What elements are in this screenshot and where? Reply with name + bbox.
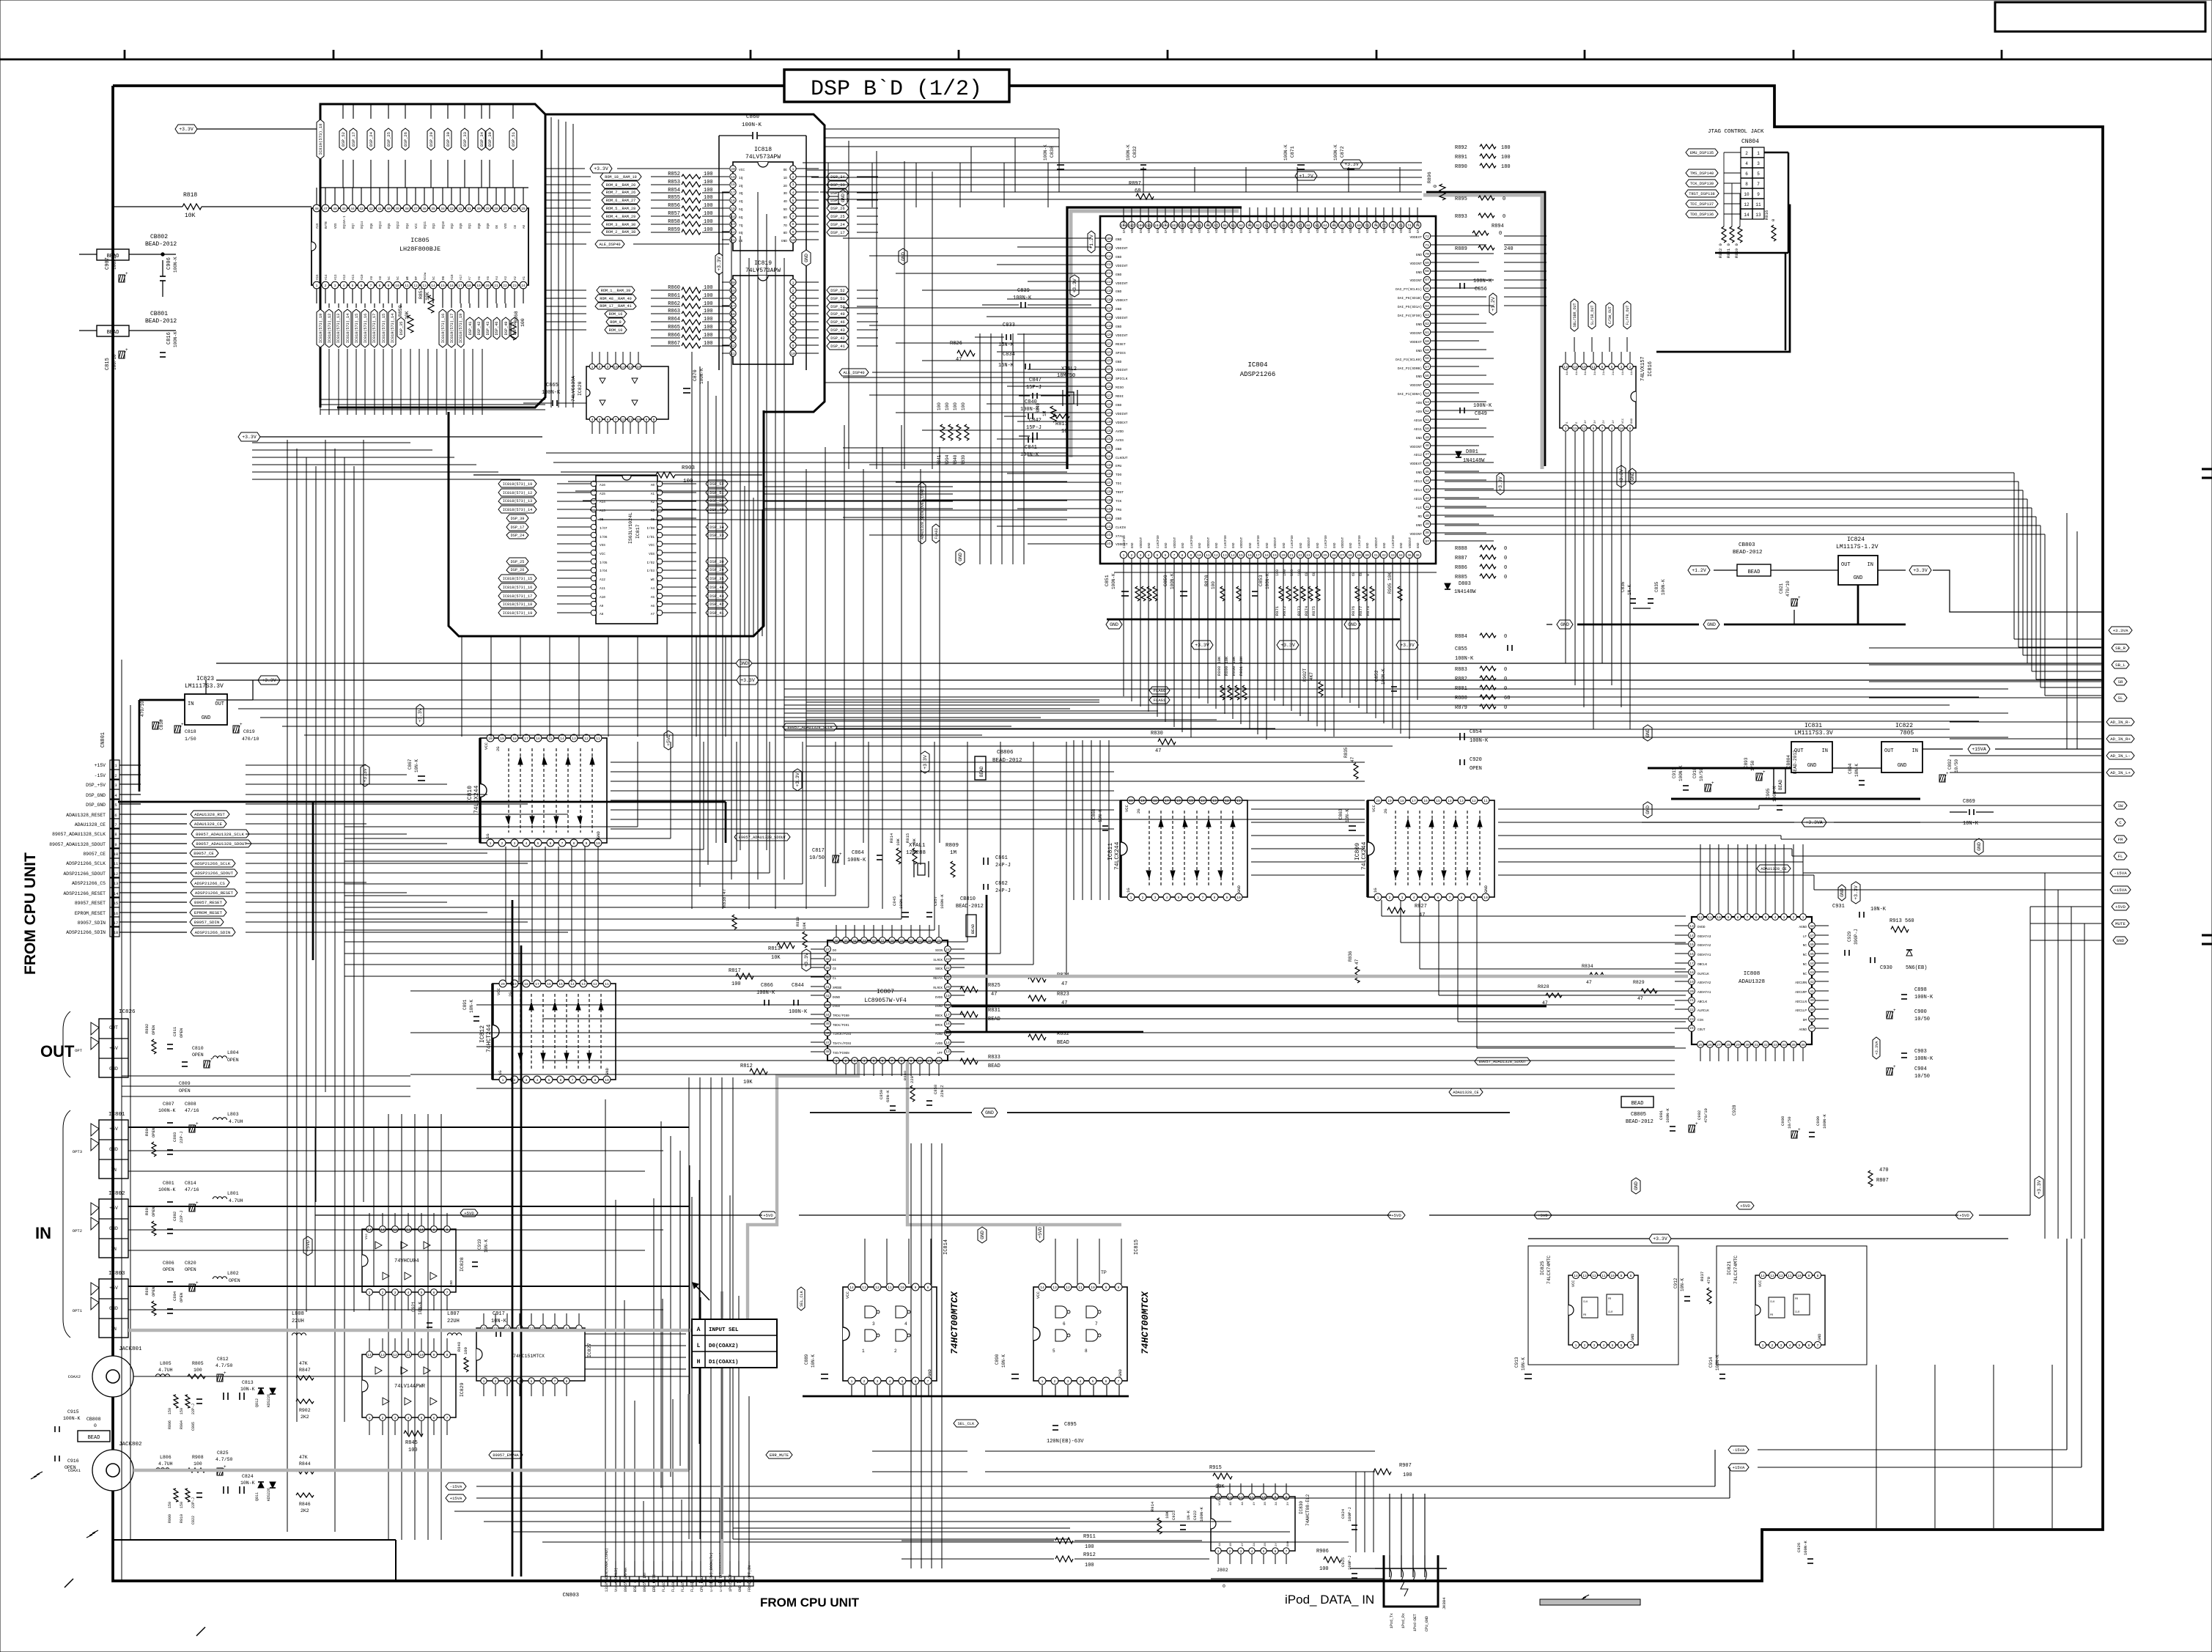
svg-text:6: 6 xyxy=(792,320,795,325)
svg-text:R814: R814 xyxy=(889,833,894,843)
svg-text:7: 7 xyxy=(1118,1379,1120,1384)
svg-text:R913 560: R913 560 xyxy=(1890,918,1914,924)
svg-text:3: 3 xyxy=(1401,896,1404,900)
tag ERR_MUTE xyxy=(766,1451,792,1459)
svg-text:36: 36 xyxy=(834,939,838,943)
svg-text:GND: GND xyxy=(1275,227,1278,233)
svg-text:89057_ADAU1328_SCLK: 89057_ADAU1328_SCLK xyxy=(196,832,245,837)
svg-text:11: 11 xyxy=(927,1059,932,1063)
svg-text:C821: C821 xyxy=(1779,583,1784,594)
svg-text:12: 12 xyxy=(114,871,119,877)
svg-text:7: 7 xyxy=(446,1416,449,1420)
svg-text:34: 34 xyxy=(1782,1043,1786,1047)
svg-text:IC808: IC808 xyxy=(1744,971,1761,977)
svg-text:+3.3V: +3.3V xyxy=(242,435,257,440)
svg-text:R891: R891 xyxy=(1455,155,1467,161)
resistor R868 100 xyxy=(510,322,516,340)
svg-text:136: 136 xyxy=(1106,472,1113,476)
svg-text:89057_ADAU1328_SDOUT: 89057_ADAU1328_SDOUT xyxy=(49,842,106,847)
svg-text:DSP_39: DSP_39 xyxy=(511,517,525,521)
svg-text:R811: R811 xyxy=(1055,421,1068,427)
svg-text:DSP_24: DSP_24 xyxy=(369,131,374,147)
svg-text:17: 17 xyxy=(1689,962,1694,966)
svg-text:LM1117S3.3V: LM1117S3.3V xyxy=(1794,730,1833,737)
svg-text:A5: A5 xyxy=(651,596,655,600)
svg-text:16: 16 xyxy=(1176,799,1181,803)
svg-text:61: 61 xyxy=(1425,331,1429,335)
svg-text:10N-K: 10N-K xyxy=(1680,1278,1685,1291)
svg-text:14: 14 xyxy=(1216,1495,1220,1500)
svg-text:ADSP21266_RESET: ADSP21266_RESET xyxy=(63,891,106,896)
svg-text:FROM CPU UNIT: FROM CPU UNIT xyxy=(760,1596,860,1609)
svg-text:56: 56 xyxy=(1425,374,1429,378)
svg-text:135: 135 xyxy=(1106,463,1113,468)
svg-text:47: 47 xyxy=(1155,748,1161,754)
+3.3V rail over flip-flops xyxy=(1528,1238,2008,1239)
svg-text:TDATA/PI03: TDATA/PI03 xyxy=(833,1042,852,1046)
svg-text:Vccw(ROM13): Vccw(ROM13) xyxy=(614,1568,619,1592)
svg-text:CE: CE xyxy=(833,968,837,971)
svg-text:A1: A1 xyxy=(523,276,526,280)
svg-text:100: 100 xyxy=(1319,1566,1329,1572)
svg-text:CB803: CB803 xyxy=(1739,542,1755,548)
svg-text:10: 10 xyxy=(1797,1274,1802,1278)
wire IC811 to IC809 links xyxy=(1251,808,1365,810)
svg-text:8: 8 xyxy=(1629,427,1632,431)
svg-text:DM: DM xyxy=(1803,1019,1807,1022)
svg-text:11: 11 xyxy=(1078,1286,1083,1290)
svg-text:20: 20 xyxy=(488,737,493,741)
svg-text:30: 30 xyxy=(1365,553,1369,558)
svg-text:OPEN: OPEN xyxy=(151,1287,156,1297)
svg-text:+1.2V: +1.2V xyxy=(1299,174,1313,179)
svg-text:CE: CE xyxy=(515,224,517,229)
svg-text:OSDATA2: OSDATA2 xyxy=(1697,944,1711,948)
svg-text:51: 51 xyxy=(1425,418,1429,422)
svg-text:14: 14 xyxy=(1201,799,1205,803)
svg-text:3: 3 xyxy=(526,1078,528,1083)
svg-text:BYTE: BYTE xyxy=(325,221,328,229)
svg-text:C809: C809 xyxy=(179,1081,191,1086)
right edge register marks xyxy=(2202,468,2212,470)
svg-text:47K: 47K xyxy=(299,1455,308,1460)
svg-text:6D: 6D xyxy=(784,215,788,220)
resistor R808 220 xyxy=(910,1085,915,1102)
svg-text:CLKCFG0: CLKCFG0 xyxy=(1225,535,1228,548)
svg-text:+: + xyxy=(1893,1064,1896,1069)
svg-text:GND: GND xyxy=(740,661,748,666)
svg-text:VDDINT: VDDINT xyxy=(1275,536,1278,548)
svg-text:C802: C802 xyxy=(172,1212,177,1221)
svg-text:14: 14 xyxy=(570,982,575,987)
svg-text:DAI_P20: DAI_P20 xyxy=(1124,220,1127,233)
svg-text:100P-J: 100P-J xyxy=(1347,1507,1352,1522)
svg-text:DSP_33: DSP_33 xyxy=(462,132,468,147)
svg-text:4: 4 xyxy=(1251,1549,1253,1554)
svg-text:112: 112 xyxy=(1106,262,1113,267)
svg-text:GND: GND xyxy=(1241,227,1244,233)
svg-text:109: 109 xyxy=(1106,237,1113,241)
flip-flop IC825 74LCX74MTC xyxy=(1568,1275,1638,1345)
svg-text:131: 131 xyxy=(1106,429,1113,433)
vertical net tags below IC805 right group xyxy=(439,309,446,347)
svg-text:A7: A7 xyxy=(651,613,655,616)
svg-text:4B: 4B xyxy=(1230,1502,1233,1505)
svg-text:R810: R810 xyxy=(795,917,800,926)
svg-text:22P-J: 22P-J xyxy=(191,1497,196,1508)
svg-text:13: 13 xyxy=(1582,1274,1587,1278)
svg-text:AD14: AD14 xyxy=(1414,488,1422,493)
svg-text:R825: R825 xyxy=(988,983,1000,989)
svg-text:GND: GND xyxy=(1977,842,1982,851)
svg-text:9: 9 xyxy=(388,284,390,288)
svg-text:2: 2 xyxy=(1745,151,1748,156)
svg-text:GND: GND xyxy=(1140,227,1143,233)
svg-text:ADSP21266_RESET: ADSP21266_RESET xyxy=(195,890,234,896)
svg-text:TCK_DSP139: TCK_DSP139 xyxy=(1690,182,1714,186)
svg-text:470/10: 470/10 xyxy=(1703,1108,1708,1123)
svg-text:31: 31 xyxy=(880,939,885,943)
tag 89057_EMPHA xyxy=(489,1451,523,1459)
power tag +3.3V at IC818 xyxy=(590,164,612,173)
wire collectors below IC804 xyxy=(806,701,1099,703)
svg-text:18M750: 18M750 xyxy=(1057,373,1075,379)
top ruler line xyxy=(0,59,2212,61)
svg-text:DSP_42: DSP_42 xyxy=(709,602,723,607)
svg-text:3A: 3A xyxy=(1275,1502,1278,1505)
svg-text:44: 44 xyxy=(825,1013,830,1017)
svg-text:7: 7 xyxy=(1286,1549,1288,1554)
svg-text:C808: C808 xyxy=(185,1102,196,1107)
svg-text:CN804: CN804 xyxy=(1741,139,1759,145)
svg-text:16: 16 xyxy=(449,284,454,288)
svg-text:R815: R815 xyxy=(905,833,910,843)
wire NAND ground bus xyxy=(803,1395,1129,1398)
svg-text:74LCX244: 74LCX244 xyxy=(473,785,480,814)
svg-text:100: 100 xyxy=(1211,581,1216,589)
svg-text:BEAD: BEAD xyxy=(988,1017,1000,1022)
DAC IC808 body xyxy=(1692,917,1812,1044)
svg-text:TRST_DSP138: TRST_DSP138 xyxy=(1689,192,1715,196)
svg-text:27: 27 xyxy=(918,939,922,943)
svg-text:+: + xyxy=(1798,595,1801,600)
wire bottom long links xyxy=(733,1527,1070,1529)
svg-text:AD12: AD12 xyxy=(1414,453,1422,457)
svg-text:VDDINT: VDDINT xyxy=(1116,333,1128,338)
svg-text:ADAU1328_SDIN(OVER_LOAD): ADAU1328_SDIN(OVER_LOAD) xyxy=(921,487,925,539)
svg-text:2: 2 xyxy=(1793,915,1795,920)
svg-text:3in1: 3in1 xyxy=(1584,368,1588,375)
svg-text:R845: R845 xyxy=(405,1440,418,1446)
svg-text:VDDINT: VDDINT xyxy=(1409,383,1422,388)
svg-text:20: 20 xyxy=(1129,799,1133,803)
svg-text:R900 10K: R900 10K xyxy=(1231,656,1236,676)
wire R911 R912 links xyxy=(872,1450,967,1452)
svg-text:A5: A5 xyxy=(487,276,490,280)
svg-text:R835: R835 xyxy=(1343,747,1349,758)
svg-text:70: 70 xyxy=(1425,252,1429,257)
wire DAC top risers xyxy=(1700,844,1701,913)
svg-text:10: 10 xyxy=(1197,553,1201,558)
svg-text:16: 16 xyxy=(1247,553,1252,558)
svg-text:ROM_6__RAM_27: ROM_6__RAM_27 xyxy=(606,199,635,203)
svg-text:12: 12 xyxy=(1472,799,1476,803)
svg-text:IC820: IC820 xyxy=(578,381,583,396)
svg-text:6: 6 xyxy=(882,1059,884,1063)
svg-text:MOSI: MOSI xyxy=(1116,394,1124,399)
svg-text:13: 13 xyxy=(581,982,586,987)
svg-text:DSP_35: DSP_35 xyxy=(399,322,404,336)
svg-text:10N-K: 10N-K xyxy=(811,1354,816,1368)
svg-text:GND: GND xyxy=(1267,542,1269,548)
svg-text:1: 1 xyxy=(1575,1343,1577,1348)
svg-text:8: 8 xyxy=(446,1353,449,1357)
svg-text:C866: C866 xyxy=(761,983,773,989)
svg-text:11: 11 xyxy=(605,982,609,987)
svg-text:DSP_34: DSP_34 xyxy=(479,131,484,147)
svg-text:ADC1LN: ADC1LN xyxy=(1795,1000,1807,1004)
svg-text:100: 100 xyxy=(1403,1472,1412,1478)
svg-text:45: 45 xyxy=(825,1022,830,1026)
svg-text:+: + xyxy=(125,347,128,353)
svg-text:GND: GND xyxy=(1116,325,1122,329)
svg-text:GND: GND xyxy=(2117,938,2125,943)
svg-text:DSP_+5V: DSP_+5V xyxy=(86,783,106,788)
svg-text:94: 94 xyxy=(1239,224,1243,228)
svg-text:C838: C838 xyxy=(1050,146,1055,158)
svg-text:GND: GND xyxy=(1149,542,1151,548)
svg-text:GND: GND xyxy=(1634,1181,1639,1190)
svg-text:IC824: IC824 xyxy=(1847,536,1865,543)
svg-text:C871: C871 xyxy=(1290,146,1295,158)
svg-text:1/50: 1/50 xyxy=(185,737,196,742)
svg-text:C822: C822 xyxy=(191,1516,196,1524)
wire thick DSP_GND from CN801 xyxy=(118,801,726,803)
svg-text:DAI_P12: DAI_P12 xyxy=(1334,220,1337,233)
svg-text:VSS: VSS xyxy=(649,553,655,556)
svg-text:DI: DI xyxy=(833,959,837,962)
GND tag under IC804 left xyxy=(1106,620,1122,629)
svg-text:+3.3V: +3.3V xyxy=(804,953,809,967)
svg-text:+: + xyxy=(125,271,128,276)
svg-text:124: 124 xyxy=(1106,367,1113,372)
svg-text:10: 10 xyxy=(791,352,795,356)
svg-text:10N-K: 10N-K xyxy=(491,1319,507,1324)
wire +5V feeds down to optical xyxy=(314,1127,316,1286)
svg-text:10K: 10K xyxy=(185,213,196,219)
resistor R851 10K xyxy=(428,295,434,313)
capacitor C913 10N-K xyxy=(1525,1373,1532,1375)
svg-text:1M: 1M xyxy=(950,850,957,856)
svg-text:126: 126 xyxy=(1106,385,1113,389)
svg-text:1N4148W: 1N4148W xyxy=(1454,589,1476,595)
svg-text:A4: A4 xyxy=(651,587,655,591)
svg-text:-15VA: -15VA xyxy=(450,1484,462,1489)
svg-text:9: 9 xyxy=(1275,1495,1277,1500)
svg-text:AD_IN_R+: AD_IN_R+ xyxy=(2110,737,2131,742)
svg-text:DSP_46: DSP_46 xyxy=(709,586,723,590)
svg-text:DSP_26: DSP_26 xyxy=(511,568,525,572)
svg-text:A16: A16 xyxy=(600,484,605,487)
svg-text:9: 9 xyxy=(910,1059,913,1063)
wire right tag feeds xyxy=(2030,906,2101,907)
svg-text:R915: R915 xyxy=(1209,1465,1222,1471)
svg-text:D1(COAX1): D1(COAX1) xyxy=(709,1360,739,1365)
svg-text:IC812: IC812 xyxy=(479,1025,486,1043)
svg-text:4.7UH: 4.7UH xyxy=(229,1119,243,1124)
svg-text:1: 1 xyxy=(851,1379,853,1384)
svg-text:28: 28 xyxy=(1726,1043,1730,1047)
svg-text:+5VD: +5VD xyxy=(2115,904,2126,910)
svg-text:5: 5 xyxy=(1052,1349,1055,1354)
svg-text:iPod-DET: iPod-DET xyxy=(729,1574,733,1592)
svg-text:24: 24 xyxy=(1315,553,1319,558)
svg-text:R826: R826 xyxy=(950,341,962,347)
svg-text:1G: 1G xyxy=(1126,888,1131,893)
svg-text:24: 24 xyxy=(945,948,950,952)
svg-text:OPEN: OPEN xyxy=(1470,766,1482,772)
svg-text:31: 31 xyxy=(1754,1043,1758,1047)
svg-text:2: 2 xyxy=(894,1349,897,1354)
svg-text:4Y: 4Y xyxy=(1253,1502,1256,1505)
svg-text:390P-J: 390P-J xyxy=(1854,929,1859,945)
svg-text:DSP_34: DSP_34 xyxy=(709,526,723,530)
svg-text:127: 127 xyxy=(1106,394,1113,398)
wire horizontals above buffers xyxy=(216,699,1099,701)
svg-text:IC818(573)_17: IC818(573)_17 xyxy=(372,314,377,343)
svg-text:BEAD: BEAD xyxy=(970,923,976,934)
svg-text:I/O3: I/O3 xyxy=(646,569,655,573)
ROM/RAM net tags left of IC819 xyxy=(597,287,635,294)
svg-text:IC818(573)_12: IC818(573)_12 xyxy=(328,314,332,343)
svg-text:IN: IN xyxy=(1822,748,1828,754)
svg-text:C916: C916 xyxy=(67,1459,79,1464)
wire JK804 risers xyxy=(1389,1494,1390,1555)
svg-text:VDDINT: VDDINT xyxy=(1182,221,1185,233)
svg-text:I/O6: I/O6 xyxy=(600,536,608,539)
svg-text:22P-J: 22P-J xyxy=(179,1131,184,1143)
svg-text:119: 119 xyxy=(1106,324,1113,328)
svg-text:4: 4 xyxy=(1413,896,1415,900)
svg-text:DVDD: DVDD xyxy=(1697,926,1706,929)
svg-text:74AHCT08-EL2: 74AHCT08-EL2 xyxy=(1305,1494,1310,1526)
svg-text:GND: GND xyxy=(1116,290,1122,294)
svg-text:C861: C861 xyxy=(995,855,1008,861)
svg-text:+: + xyxy=(1711,781,1714,786)
svg-text:117: 117 xyxy=(1106,306,1113,311)
svg-text:10N-K: 10N-K xyxy=(469,1000,474,1013)
svg-text:6Q: 6Q xyxy=(739,215,743,220)
resistor column R841 R994 R840 R839 xyxy=(940,424,945,440)
svg-text:74LV573APW: 74LV573APW xyxy=(745,154,781,161)
svg-text:470/10: 470/10 xyxy=(140,701,145,717)
svg-text:100: 100 xyxy=(704,180,713,185)
svg-text:143: 143 xyxy=(1106,533,1113,537)
svg-text:8: 8 xyxy=(1461,896,1463,900)
svg-text:IN: IN xyxy=(111,1247,117,1252)
svg-text:1in0: 1in0 xyxy=(1630,368,1634,375)
svg-text:DSP_51: DSP_51 xyxy=(511,131,516,147)
svg-text:C920: C920 xyxy=(1470,757,1482,763)
svg-text:+3.3V: +3.3V xyxy=(795,772,800,787)
svg-text:0: 0 xyxy=(1771,219,1776,221)
resistor R816 0 xyxy=(1772,225,1776,241)
svg-text:4.7/50: 4.7/50 xyxy=(215,1457,233,1462)
svg-text:180: 180 xyxy=(1501,164,1511,170)
svg-text:39: 39 xyxy=(1810,1008,1814,1012)
svg-text:14: 14 xyxy=(367,1353,372,1357)
svg-text:7: 7 xyxy=(1449,896,1451,900)
svg-text:100N-K: 100N-K xyxy=(1126,144,1131,161)
svg-text:DSP_30: DSP_30 xyxy=(446,132,451,147)
tags -15VA +15VA left xyxy=(446,1483,466,1490)
svg-text:16: 16 xyxy=(945,1022,950,1026)
vertical net tags above IC805 xyxy=(317,119,324,159)
svg-text:54: 54 xyxy=(1425,391,1429,396)
svg-text:43: 43 xyxy=(1425,487,1429,492)
svg-text:7: 7 xyxy=(1601,427,1604,431)
svg-text:30: 30 xyxy=(476,207,481,211)
svg-text:OUT: OUT xyxy=(215,701,224,707)
svg-text:VDDINT: VDDINT xyxy=(1342,536,1345,548)
svg-text:6: 6 xyxy=(114,813,117,818)
svg-text:10: 10 xyxy=(114,852,119,857)
wire top bus outer blob to DSP xyxy=(825,128,1059,130)
svg-text:13: 13 xyxy=(1052,1286,1057,1290)
svg-text:2K2: 2K2 xyxy=(301,1508,309,1513)
power tag +3.3V vert right xyxy=(1497,473,1504,495)
svg-text:47/16: 47/16 xyxy=(185,1108,199,1113)
gray highlight pin9 branch xyxy=(907,1062,1121,1225)
svg-text:3: 3 xyxy=(607,365,609,369)
svg-text:13: 13 xyxy=(1223,553,1227,558)
svg-text:IC818(573)_13: IC818(573)_13 xyxy=(503,499,532,504)
wire heavy RDATA link xyxy=(951,1006,1546,1008)
svg-text:15: 15 xyxy=(114,901,119,906)
svg-text:VDDINT: VDDINT xyxy=(1199,221,1202,233)
svg-text:FL/FR_OUT: FL/FR_OUT xyxy=(1626,305,1630,325)
svg-text:3: 3 xyxy=(792,182,795,187)
power tag +3.3V vertical xyxy=(1070,275,1079,297)
svg-text:13: 13 xyxy=(1212,799,1217,803)
svg-text:89057_CE: 89057_CE xyxy=(193,851,214,856)
svg-text:SR: SR xyxy=(2118,679,2123,685)
svg-text:4: 4 xyxy=(792,191,795,195)
svg-text:12: 12 xyxy=(413,284,418,288)
svg-text:38: 38 xyxy=(1810,1017,1814,1022)
svg-text:KDS226: KDS226 xyxy=(267,1394,271,1407)
svg-text:5: 5 xyxy=(1799,1343,1801,1348)
svg-text:74LVX157: 74LVX157 xyxy=(1640,356,1646,381)
svg-text:ADAU1328_CE: ADAU1328_CE xyxy=(75,822,106,827)
svg-text:OPEN: OPEN xyxy=(179,1088,191,1094)
svg-text:NC: NC xyxy=(397,276,400,280)
svg-text:ROM_17__RAM_41: ROM_17__RAM_41 xyxy=(600,304,632,309)
svg-text:DSP_52: DSP_52 xyxy=(341,132,346,147)
svg-text:5: 5 xyxy=(1092,1379,1094,1384)
svg-text:GND: GND xyxy=(109,1066,118,1072)
svg-text:89057_SDIN: 89057_SDIN xyxy=(194,920,220,925)
svg-text:R887: R887 xyxy=(1455,556,1467,561)
wire left leads extended xyxy=(843,237,1028,239)
svg-text:41: 41 xyxy=(1810,989,1814,994)
svg-text:100: 100 xyxy=(704,172,713,177)
svg-text:3: 3 xyxy=(872,1321,875,1327)
svg-text:DAI_P1(SD0A): DAI_P1(SD0A) xyxy=(1398,392,1422,397)
svg-text:C804: C804 xyxy=(172,1291,177,1301)
svg-text:26: 26 xyxy=(1332,553,1336,558)
svg-text:12: 12 xyxy=(1744,202,1750,207)
